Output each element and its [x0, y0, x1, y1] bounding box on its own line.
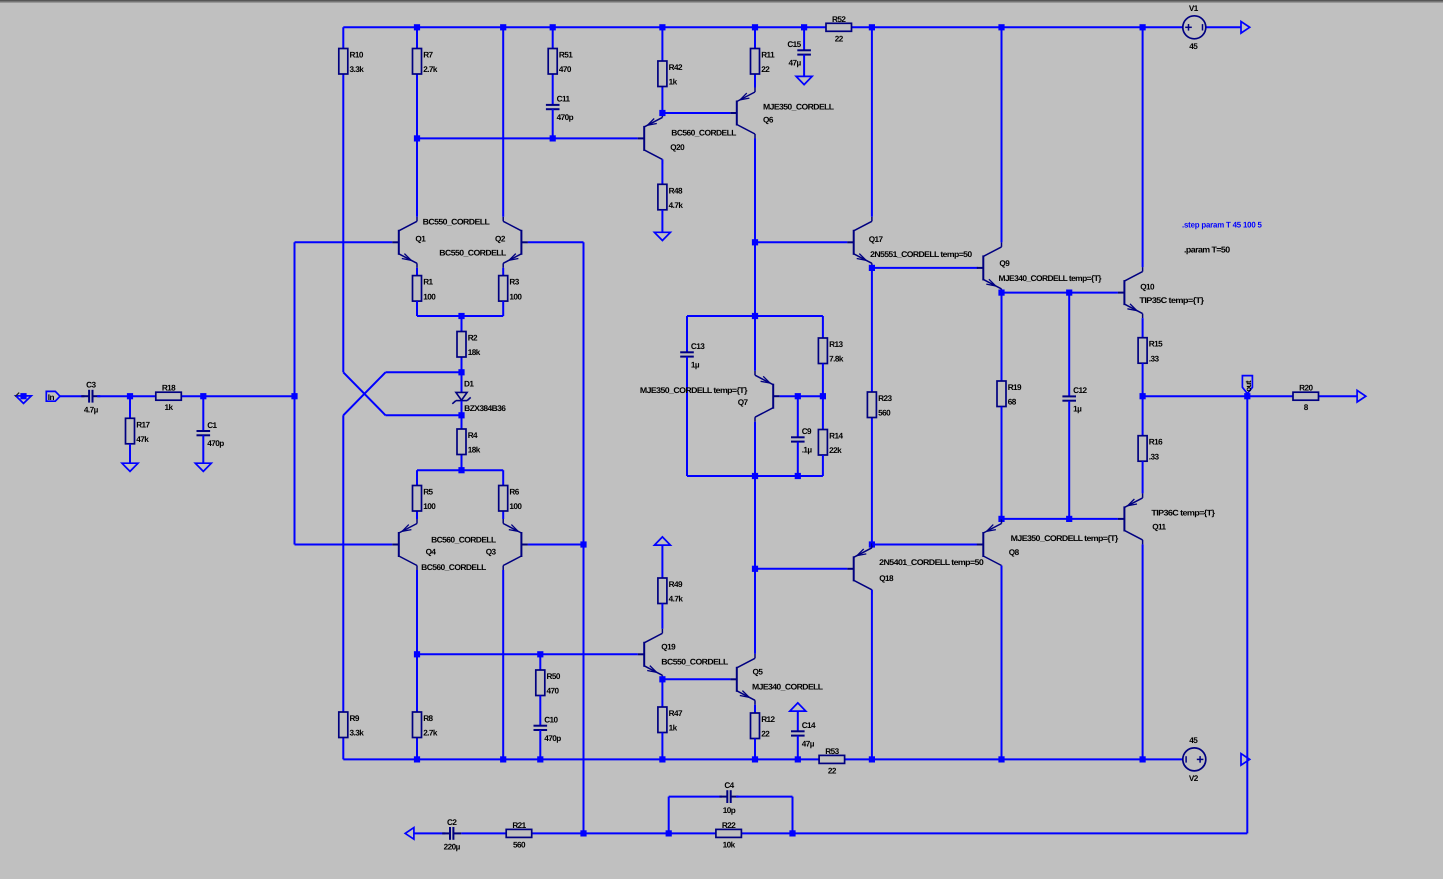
wire Q4 base: [295, 544, 393, 546]
wire R19 bottom: [1001, 407, 1003, 519]
port out: [1242, 376, 1252, 394]
resistor R51: [548, 49, 573, 75]
ground R48: [654, 232, 670, 240]
wire trunk to Q7 emitter: [754, 316, 756, 371]
svg-text:C13: C13: [691, 342, 705, 351]
wire R16 to Q11 emitter: [1142, 461, 1144, 493]
junction: [414, 135, 420, 141]
label Q7 name: [738, 398, 749, 407]
svg-text:R48: R48: [669, 186, 683, 195]
resistor R50: [536, 670, 561, 696]
svg-text:22k: 22k: [829, 446, 842, 455]
svg-text:C11: C11: [557, 95, 571, 104]
svg-text:Q17: Q17: [869, 235, 884, 244]
wire D1 cathode: [461, 401, 463, 416]
transistor Q8: [977, 519, 1002, 570]
resistor R3: [499, 276, 523, 302]
wire Q3 base: [528, 544, 584, 546]
wire C1 top: [202, 396, 204, 431]
wire flag to C14: [797, 711, 799, 732]
junction: [869, 265, 875, 271]
svg-text:R8: R8: [423, 714, 433, 723]
junction: [580, 541, 586, 547]
svg-text:470: 470: [559, 65, 572, 74]
power flag C14: [790, 703, 806, 711]
wire Q2 emitter to R3: [502, 268, 504, 276]
capacitor C14: [791, 721, 816, 748]
svg-text:R9: R9: [350, 714, 360, 723]
wire V+ rail: [343, 26, 1183, 28]
junction: [414, 651, 420, 657]
svg-text:2N5551_CORDELL temp=50: 2N5551_CORDELL temp=50: [870, 250, 973, 259]
svg-text:D1: D1: [464, 379, 474, 388]
wire input node column: [294, 242, 296, 544]
junction: [1140, 756, 1146, 762]
wire D1 anode: [461, 372, 463, 392]
svg-text:2N5401_CORDELL temp=50: 2N5401_CORDELL temp=50: [879, 558, 984, 567]
wire V1 output: [1206, 26, 1241, 28]
wire out to R16: [1142, 396, 1144, 436]
resistor R7: [413, 49, 438, 75]
label Q11 name: [1152, 523, 1166, 532]
label Q2 name: [495, 234, 506, 243]
wire Q17 base: [755, 241, 847, 243]
svg-text:C15: C15: [787, 40, 801, 49]
wire Q1 emitter to R1: [416, 268, 418, 276]
junction: [537, 756, 543, 762]
junction: [458, 313, 464, 319]
svg-text:R20: R20: [1299, 384, 1313, 393]
svg-text:Q8: Q8: [1009, 548, 1020, 557]
junction: [458, 412, 464, 418]
svg-text:V1: V1: [1189, 4, 1199, 13]
junction: [1244, 393, 1250, 399]
transistor Q9: [977, 242, 1002, 293]
svg-text:TIP36C temp={T}: TIP36C temp={T}: [1151, 509, 1215, 518]
wire R9 column: [342, 415, 344, 759]
transistor Q19: [638, 629, 663, 680]
junction: [200, 393, 206, 399]
svg-text:.33: .33: [1149, 354, 1160, 363]
svg-text:Q4: Q4: [426, 547, 437, 556]
svg-text:.step param T 45 100 5: .step param T 45 100 5: [1182, 221, 1262, 230]
wire Q6 collector / trunk: [754, 139, 756, 317]
resistor R18: [156, 384, 182, 413]
wire C9 bottom: [797, 442, 799, 476]
svg-text:18k: 18k: [468, 446, 481, 455]
wire C12 bottom: [1068, 401, 1070, 519]
label Q4 type: [431, 536, 496, 545]
wire Q2 collector to rail: [502, 27, 504, 217]
svg-text:R1: R1: [423, 278, 433, 287]
junction: [752, 566, 758, 572]
junction: [801, 24, 807, 30]
svg-text:22: 22: [761, 65, 770, 74]
svg-text:47µ: 47µ: [789, 59, 802, 68]
svg-text:R10: R10: [350, 51, 364, 60]
svg-text:R47: R47: [669, 709, 683, 718]
wire R21 row: [461, 832, 583, 834]
svg-text:R5: R5: [423, 488, 433, 497]
ground C1: [195, 463, 211, 471]
junction: [659, 110, 665, 116]
svg-text:TIP35C temp={T}: TIP35C temp={T}: [1139, 296, 1205, 305]
wire C4 left: [669, 796, 722, 798]
svg-text:R50: R50: [547, 672, 561, 681]
wire C2 to arrow: [414, 832, 446, 834]
transistor Q5: [730, 654, 755, 705]
wire R2 column: [461, 316, 463, 372]
label Q17 type: [870, 250, 973, 259]
wire flag to R49: [661, 545, 663, 579]
resistor R47: [658, 707, 683, 733]
resistor R4: [457, 429, 481, 455]
wire Q8 collector: [1001, 566, 1003, 760]
wire Q18 collector: [871, 590, 873, 760]
wire out column down: [1246, 396, 1248, 833]
wire Q19 emitter: [661, 678, 663, 681]
wire R22 row: [669, 832, 793, 834]
svg-text:R11: R11: [761, 51, 775, 60]
junction: [998, 756, 1004, 762]
svg-text:R51: R51: [559, 51, 573, 60]
transistor Q7: [755, 371, 780, 422]
resistor R20: [1293, 384, 1319, 413]
wire to node above D1: [386, 371, 462, 373]
junction: [1140, 393, 1146, 399]
label Q3 type: [421, 563, 486, 572]
label Q8 name: [1009, 548, 1020, 557]
wire R15 to out: [1142, 363, 1144, 396]
transistor Q20: [638, 113, 663, 164]
wire C11 bottom: [552, 109, 554, 138]
resistor R11: [751, 49, 776, 75]
port In: [46, 391, 60, 402]
label Q20 type: [671, 129, 736, 138]
wire C10 bottom: [539, 730, 541, 759]
wire V- rail: [343, 758, 1183, 760]
resistor R48: [658, 184, 683, 210]
wire Q17 collector: [871, 27, 873, 217]
wire R5 column: [416, 470, 418, 519]
svg-text:22: 22: [761, 730, 770, 739]
svg-text:R19: R19: [1008, 383, 1022, 392]
resistor R9: [339, 712, 364, 738]
svg-text:Q7: Q7: [738, 398, 749, 407]
resistor R2: [457, 332, 481, 358]
svg-text:R17: R17: [136, 420, 150, 429]
svg-text:22: 22: [828, 766, 837, 775]
resistor R42: [658, 61, 683, 87]
svg-text:Q5: Q5: [753, 668, 764, 677]
svg-text:R21: R21: [512, 821, 526, 830]
svg-text:R52: R52: [832, 15, 846, 24]
wire Q17 emitter to Q9 base: [872, 267, 978, 269]
label Q4 name: [426, 547, 437, 556]
svg-text:100: 100: [509, 292, 522, 301]
svg-text:R13: R13: [829, 340, 843, 349]
wire out to R20: [1247, 395, 1357, 397]
wire Q7 collector to box bottom: [754, 422, 756, 476]
svg-text:C3: C3: [86, 381, 96, 390]
resistor R1: [413, 276, 437, 302]
svg-text:R15: R15: [1149, 340, 1163, 349]
svg-text:C2: C2: [447, 818, 457, 827]
svg-text:Q18: Q18: [879, 574, 894, 583]
wire C13 top: [686, 316, 688, 352]
resistor R10: [339, 49, 364, 75]
junction: [789, 830, 795, 836]
label Q19 type: [661, 658, 728, 667]
svg-text:47k: 47k: [136, 435, 149, 444]
transistor Q2: [503, 217, 528, 268]
svg-text:BC550_CORDELL: BC550_CORDELL: [439, 249, 506, 258]
svg-text:2.7k: 2.7k: [423, 65, 438, 74]
label Q5 type: [752, 683, 823, 692]
wire C15 top: [803, 27, 805, 50]
wire Q1 base: [295, 241, 393, 243]
wire C12 top: [1068, 293, 1070, 397]
transistor Q4: [392, 519, 417, 570]
wire In to C3: [60, 395, 84, 397]
resistor R12: [751, 713, 776, 739]
junction: [500, 24, 506, 30]
svg-text:BZX384B36: BZX384B36: [464, 404, 506, 413]
junction: [998, 516, 1004, 522]
transistor Q11: [1118, 493, 1143, 544]
transistor Q3: [503, 519, 528, 570]
wire R4 column: [461, 415, 463, 470]
svg-text:R6: R6: [509, 488, 519, 497]
junction: [659, 676, 665, 682]
wire R13 top: [822, 316, 824, 338]
power flag R49: [654, 537, 670, 545]
ground R17: [122, 463, 138, 471]
svg-text:Q6: Q6: [763, 116, 774, 125]
wire Q10 base row: [1002, 292, 1118, 294]
resistor R22: [716, 821, 742, 850]
wire Q2 base: [528, 241, 584, 243]
svg-text:R22: R22: [722, 821, 736, 830]
svg-text:Q2: Q2: [495, 234, 506, 243]
wire Q10 emitter: [1142, 318, 1144, 338]
directive .param: [1184, 245, 1230, 255]
svg-text:R23: R23: [878, 394, 892, 403]
label Q9 type: [999, 274, 1103, 283]
label Q1 name: [415, 234, 426, 243]
junction: [752, 473, 758, 479]
svg-text:BC550_CORDELL: BC550_CORDELL: [661, 658, 728, 667]
wire R42 column: [661, 27, 663, 113]
svg-text:Q3: Q3: [486, 547, 497, 556]
wire R10 column: [342, 27, 344, 372]
svg-text:R53: R53: [825, 747, 839, 756]
svg-text:1µ: 1µ: [691, 361, 700, 370]
resistor R14: [818, 430, 843, 456]
svg-text:100: 100: [423, 292, 436, 301]
wire R48 to ground: [661, 210, 663, 233]
junction: [998, 290, 1004, 296]
svg-text:470p: 470p: [544, 734, 561, 743]
ground C15: [796, 76, 812, 84]
wire Q11 base row: [1002, 518, 1118, 520]
svg-text:R16: R16: [1149, 438, 1163, 447]
wire Q3 collector column: [502, 570, 504, 759]
svg-text:4.7µ: 4.7µ: [84, 405, 99, 414]
svg-text:.33: .33: [1149, 452, 1160, 461]
junction: [500, 756, 506, 762]
svg-text:68: 68: [1008, 398, 1017, 407]
svg-text:MJE350_CORDELL: MJE350_CORDELL: [763, 103, 834, 112]
ground flag input source: [15, 393, 31, 404]
wire Q19 base row: [417, 653, 638, 655]
resistor R49: [658, 578, 683, 604]
svg-text:MJE340_CORDELL: MJE340_CORDELL: [752, 683, 823, 692]
wire to R21: [584, 832, 669, 834]
junction: [20, 393, 26, 399]
svg-text:MJE350_CORDELL temp={T}: MJE350_CORDELL temp={T}: [1011, 534, 1119, 543]
wire R3 bottom: [502, 301, 504, 316]
wire Q7 base: [780, 395, 823, 397]
wire out node: [1143, 395, 1248, 397]
wire R50 to C10: [539, 696, 541, 726]
svg-text:out: out: [1244, 380, 1253, 392]
capacitor C10: [534, 716, 562, 743]
junction: [795, 393, 801, 399]
wire R12 bottom: [754, 739, 756, 760]
wire Q11 collector: [1142, 544, 1144, 759]
wire Q20 collector to R48: [661, 159, 663, 184]
junction: [795, 473, 801, 479]
capacitor C1: [197, 421, 225, 448]
svg-text:C10: C10: [544, 716, 558, 725]
wire R6 column: [502, 470, 504, 519]
svg-text:Q1: Q1: [415, 234, 426, 243]
svg-text:10k: 10k: [723, 840, 736, 849]
capacitor C13: [680, 342, 705, 369]
svg-text:C4: C4: [724, 781, 734, 790]
resistor R15: [1138, 338, 1163, 364]
transistor Q1: [392, 217, 417, 268]
label Q19 name: [661, 643, 676, 652]
wire trunk to Q5 collector: [754, 569, 756, 654]
label Q8 type: [1011, 534, 1119, 543]
svg-text:7.8k: 7.8k: [829, 355, 844, 364]
port flag V-: [1241, 754, 1250, 766]
resistor R5: [413, 486, 437, 512]
junction: [820, 393, 826, 399]
junction: [1140, 24, 1146, 30]
wire R23 column: [871, 268, 873, 545]
junction: [869, 541, 875, 547]
junction: [869, 24, 875, 30]
svg-text:45: 45: [1189, 42, 1198, 51]
wire trunk: [754, 476, 756, 569]
resistor R8: [413, 712, 438, 738]
junction: [752, 24, 758, 30]
svg-text:C1: C1: [207, 421, 217, 430]
svg-text:470p: 470p: [207, 439, 224, 448]
svg-text:100: 100: [509, 502, 522, 511]
svg-text:100: 100: [423, 502, 436, 511]
wire R49 to Q19 collector: [661, 604, 663, 629]
svg-text:BC560_CORDELL: BC560_CORDELL: [671, 129, 736, 138]
wire R14 bottom: [822, 455, 824, 476]
wire R47 top: [661, 679, 663, 707]
junction: [580, 830, 586, 836]
junction: [550, 135, 556, 141]
svg-text:22: 22: [835, 34, 844, 43]
junction: [458, 369, 464, 375]
label Q9 name: [999, 259, 1010, 268]
wire C3 to input node: [97, 395, 294, 397]
junction: [550, 24, 556, 30]
wire to node below D1: [386, 414, 462, 416]
wire to Q8 base: [872, 544, 978, 546]
label Q6 name: [763, 116, 774, 125]
transistor Q6: [730, 88, 755, 139]
svg-text:MJE350_CORDELL temp={T}: MJE350_CORDELL temp={T}: [640, 386, 748, 395]
label Q10 type: [1139, 296, 1205, 305]
wire R51 column: [552, 27, 554, 105]
label Q5 name: [753, 668, 764, 677]
port flag feedback return: [405, 828, 414, 840]
resistor R17: [126, 418, 151, 444]
resistor R19: [997, 381, 1022, 407]
svg-text:3.3k: 3.3k: [350, 65, 365, 74]
capacitor C3: [81, 381, 100, 415]
port flag V+: [1241, 22, 1250, 34]
label Q1 type: [423, 218, 490, 227]
svg-text:Q9: Q9: [999, 259, 1010, 268]
svg-text:R7: R7: [423, 51, 433, 60]
svg-text:In: In: [48, 393, 55, 402]
junction: [659, 24, 665, 30]
svg-text:BC560_CORDELL: BC560_CORDELL: [421, 563, 486, 572]
junction: [752, 313, 758, 319]
resistor R53: [819, 747, 845, 776]
wire R19 top: [1001, 293, 1003, 381]
wire C4 branch left: [668, 797, 670, 834]
svg-text:470: 470: [547, 687, 560, 696]
wire R42 to Q6 base: [662, 112, 730, 114]
wire Q20 base row: [417, 137, 638, 139]
label D1 name: [464, 379, 474, 388]
wire C14 bottom: [797, 736, 799, 760]
port flag R20 right: [1357, 390, 1366, 402]
svg-text:Q10: Q10: [1140, 283, 1155, 292]
label Q10 name: [1140, 283, 1155, 292]
wire R11 column: [754, 27, 756, 87]
svg-text:3.3k: 3.3k: [350, 729, 365, 738]
svg-text:.1µ: .1µ: [802, 446, 813, 455]
capacitor C15: [787, 40, 811, 67]
wire C4 branch right: [792, 797, 794, 834]
wire R14 top: [822, 396, 824, 429]
svg-text:BC550_CORDELL: BC550_CORDELL: [423, 218, 490, 227]
svg-text:220µ: 220µ: [444, 843, 461, 852]
wire feedback bottom right: [793, 832, 1248, 834]
junction: [1066, 516, 1072, 522]
svg-text:R4: R4: [468, 431, 478, 440]
zener diode D1: [452, 392, 470, 403]
voltage source V1: [1183, 4, 1206, 51]
svg-text:45: 45: [1189, 736, 1198, 745]
wire Q5 emitter to R12: [754, 705, 756, 713]
wire R7 / Q1 collector: [416, 27, 418, 217]
svg-text:1k: 1k: [669, 724, 678, 733]
wire crossover down: [343, 372, 385, 415]
